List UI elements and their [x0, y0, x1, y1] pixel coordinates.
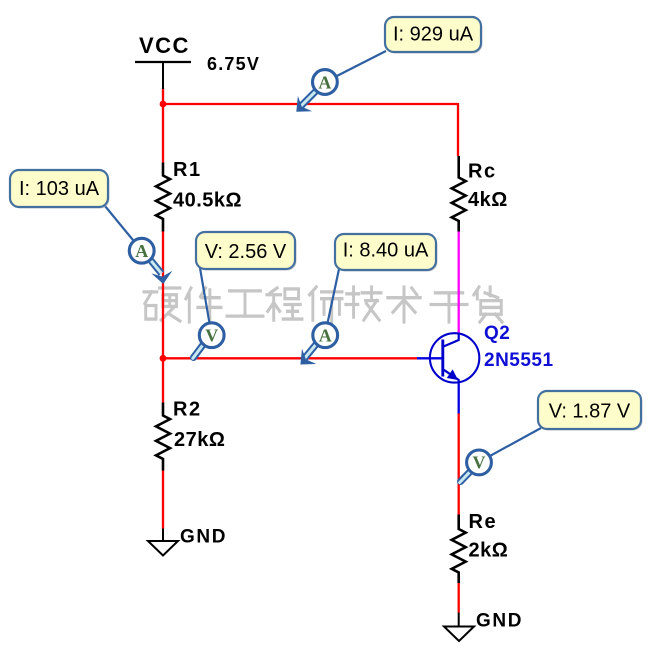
svg-text:I: 929 uA: I: 929 uA — [393, 24, 474, 46]
wire: left vertical VCC to R1 (red) — [162, 88, 164, 163]
wire: Re to GND (red) — [458, 583, 460, 613]
svg-text:R1: R1 — [173, 159, 202, 181]
resistor R2 — [156, 399, 225, 471]
svg-text:Q2: Q2 — [484, 323, 510, 344]
svg-text:27kΩ: 27kΩ — [174, 429, 225, 451]
callout I: 929 uA — [385, 17, 483, 54]
probe connector line: I 8.40 — [325, 269, 339, 335]
wire: right vertical to Rc (red) — [457, 103, 459, 156]
wire: base segment near transistor (blue) — [417, 357, 442, 359]
current probe A (929 uA) — [296, 70, 337, 112]
svg-text:A: A — [319, 326, 332, 346]
current probe A (103 uA) — [129, 238, 172, 284]
voltage probe V (1.87 V) — [460, 450, 492, 483]
svg-text:V: V — [473, 453, 486, 473]
svg-text:4kΩ: 4kΩ — [468, 189, 508, 211]
svg-text:I: 8.40 uA: I: 8.40 uA — [343, 240, 429, 262]
voltage probe V (2.56 V) — [193, 323, 224, 358]
wire: R2 to GND (red) — [162, 471, 164, 529]
callout V: 1.87 V — [538, 391, 643, 431]
current probe A (8.40 uA) — [300, 323, 337, 365]
svg-text:V: 1.87 V: V: 1.87 V — [549, 401, 631, 423]
svg-text:2N5551: 2N5551 — [484, 350, 554, 371]
svg-text:V: 2.56 V: V: 2.56 V — [205, 241, 287, 263]
svg-text:I: 103 uA: I: 103 uA — [19, 178, 100, 200]
svg-text:Rc: Rc — [468, 161, 497, 183]
svg-text:40.5kΩ: 40.5kΩ — [173, 190, 242, 212]
svg-text:Re: Re — [469, 511, 498, 533]
svg-text:A: A — [318, 72, 331, 92]
callout I: 8.40 uA — [335, 234, 438, 272]
wire: R1 to node B (red) — [162, 232, 164, 359]
svg-text:VCC: VCC — [139, 33, 190, 58]
watermark — [144, 287, 502, 322]
wire: emitter to Re (red) — [458, 414, 460, 515]
probe connector line: I 103 — [105, 206, 142, 251]
value label 6.75V — [207, 54, 260, 74]
svg-text:6.75V: 6.75V — [207, 54, 260, 74]
svg-text:V: V — [205, 326, 218, 346]
svg-text:GND: GND — [476, 610, 523, 631]
resistor Rc — [452, 156, 508, 232]
wire: top horizontal net VCC (red) — [163, 103, 458, 105]
wire: base horizontal (red) — [163, 357, 417, 359]
probe connector line: V 1.87 — [479, 428, 541, 462]
ground (left) — [148, 527, 227, 556]
callout I: 103 uA — [10, 170, 110, 209]
node A junction dot — [160, 101, 167, 108]
resistor R1 — [156, 159, 242, 232]
node B junction dot — [160, 355, 167, 362]
ground (right) — [444, 610, 523, 641]
wire: node B to R2 (red) — [162, 358, 164, 403]
resistor Re — [452, 511, 509, 583]
VCC power symbol — [135, 33, 191, 89]
wire: collector net Rc to Q2 (magenta) — [458, 232, 460, 335]
svg-text:2kΩ: 2kΩ — [469, 540, 509, 562]
probe connector line: V 2.56 — [200, 268, 212, 335]
probe connector line: I 929 — [325, 51, 386, 82]
transistor Q2 2N5551 — [430, 323, 554, 383]
wire: emitter below Q2 (blue) — [458, 381, 460, 414]
svg-text:GND: GND — [180, 527, 227, 548]
svg-text:R2: R2 — [173, 399, 202, 421]
svg-text:A: A — [135, 241, 148, 261]
callout V: 2.56 V — [196, 232, 297, 271]
